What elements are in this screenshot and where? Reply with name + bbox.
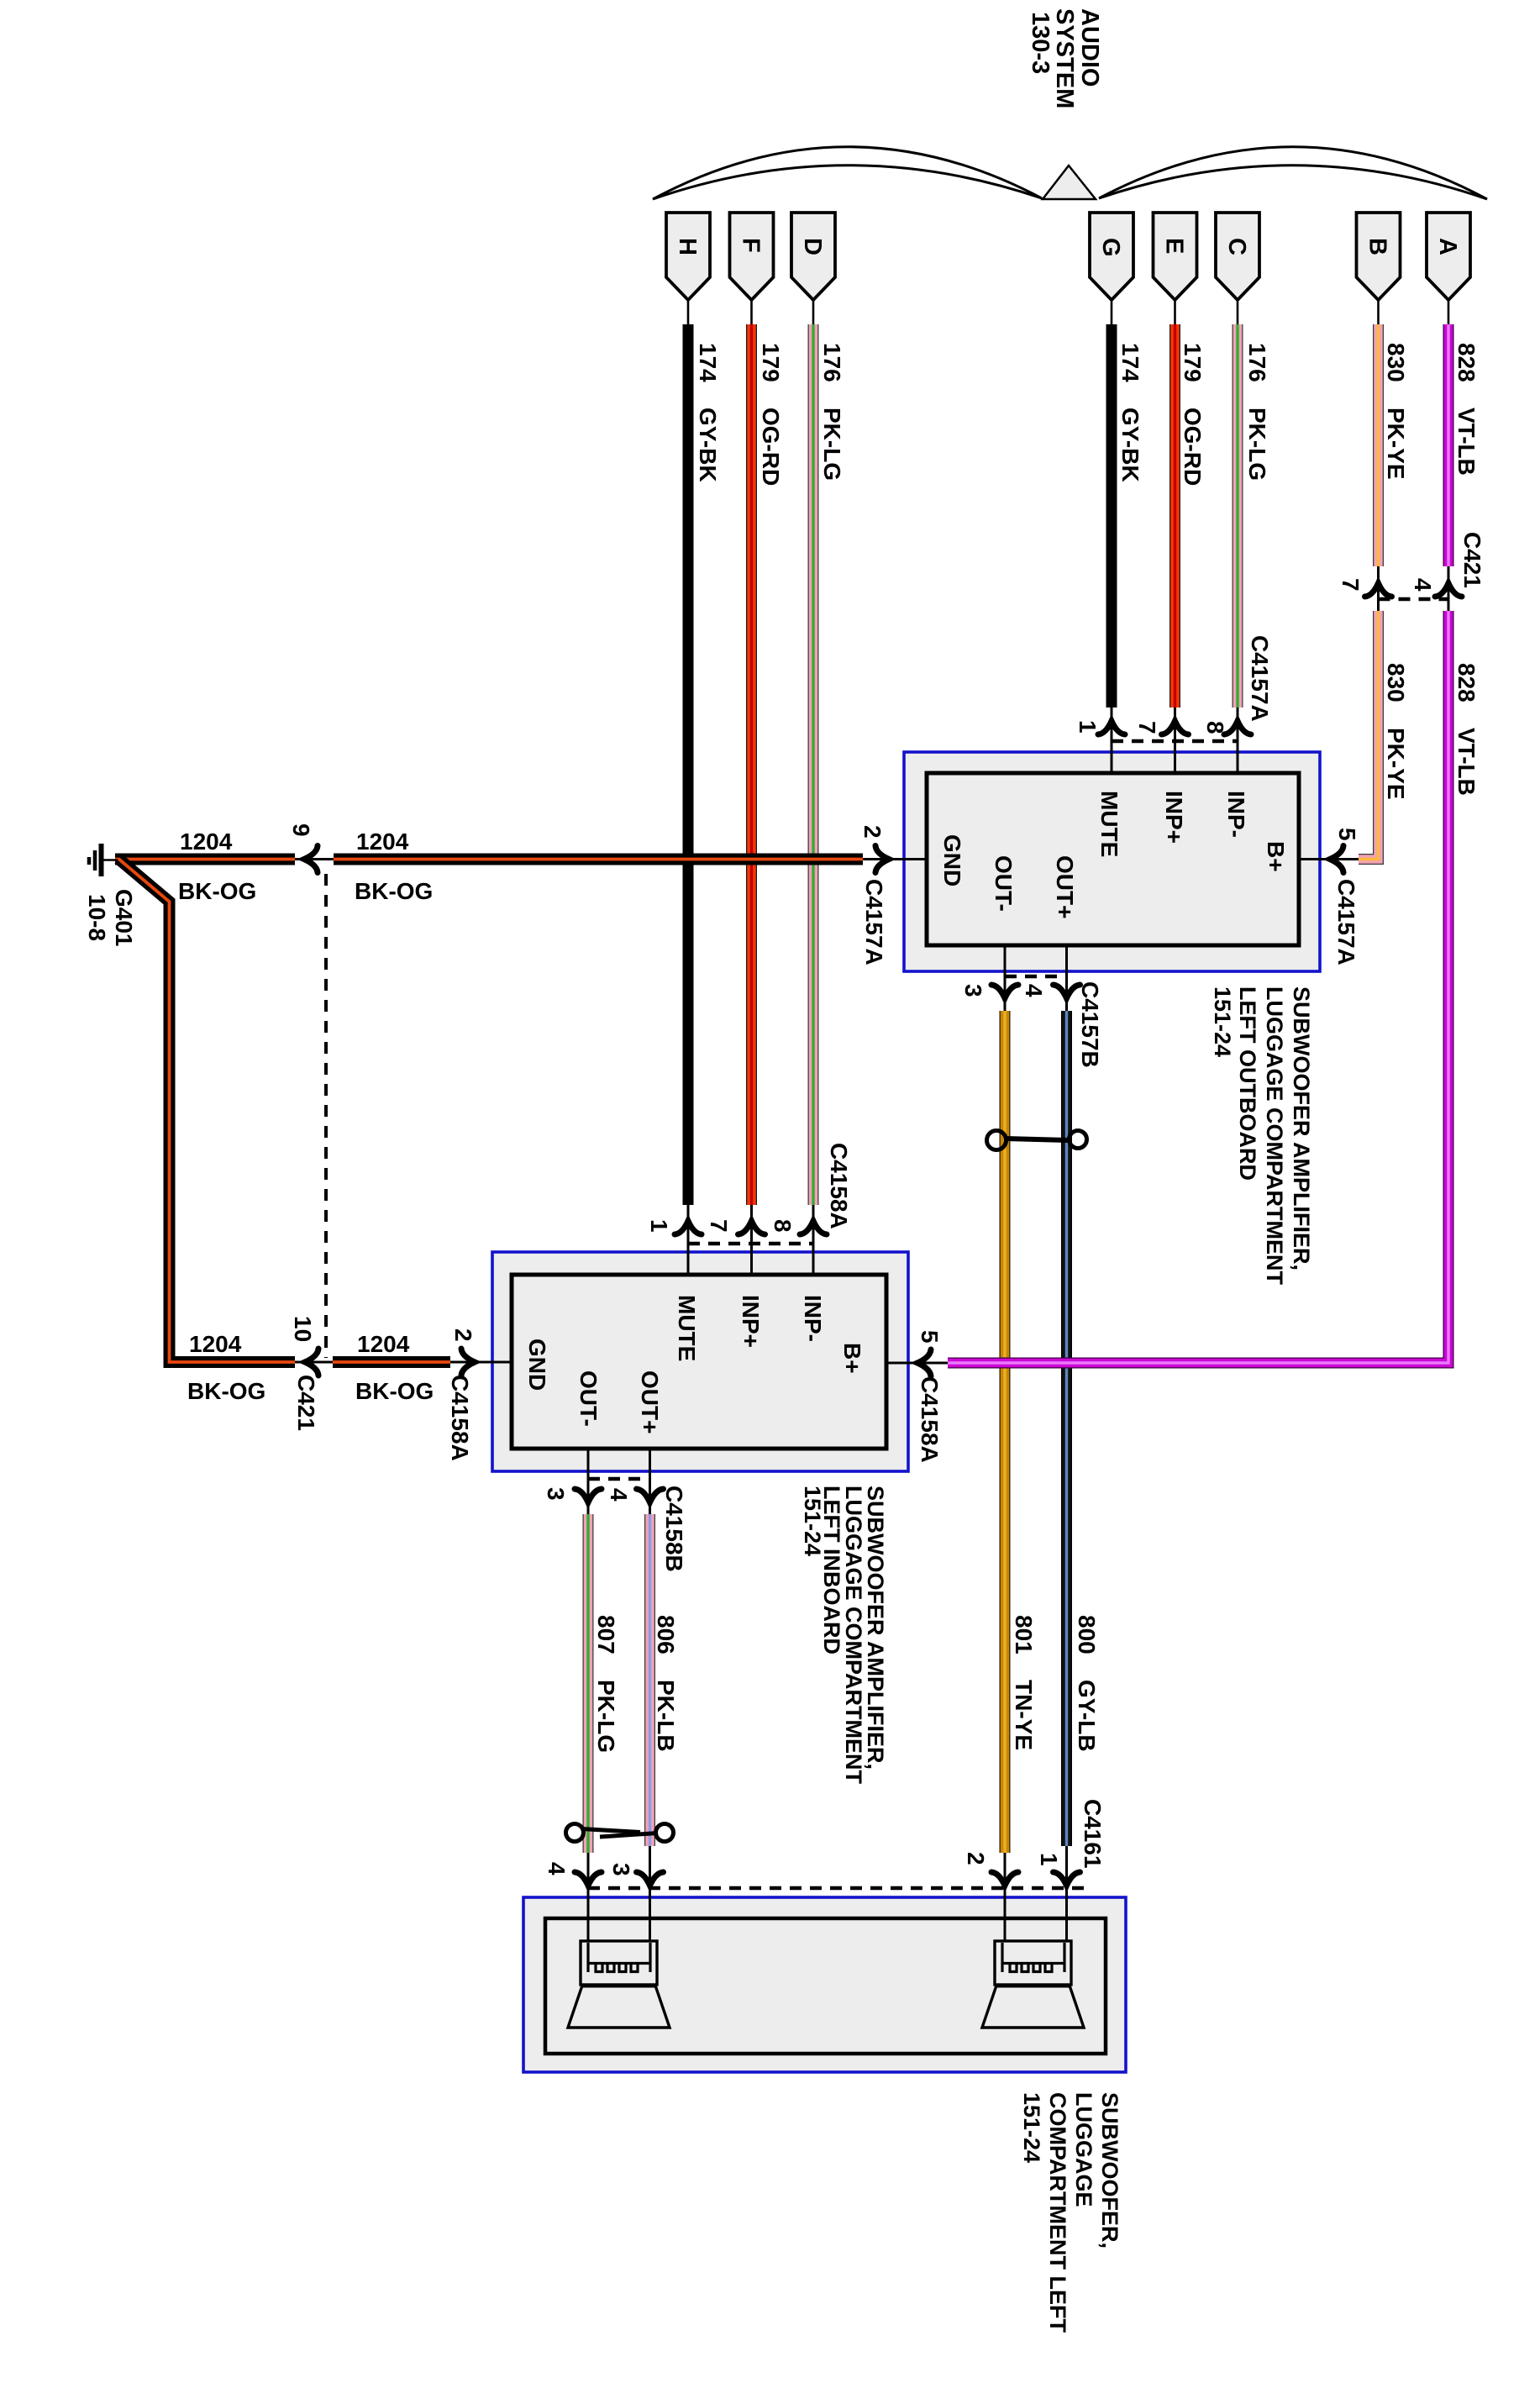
lower amp pin 1 arrow (675, 1221, 702, 1234)
speaker right cone (982, 1986, 1084, 2028)
svg-text:10-8: 10-8 (84, 894, 110, 941)
speaker right coil (1002, 1943, 1064, 1972)
harness brace triangle (1043, 166, 1096, 199)
svg-text:C4158A: C4158A (826, 1143, 852, 1229)
connector label H (666, 213, 710, 300)
svg-text:B+: B+ (839, 1343, 865, 1374)
svg-text:5: 5 (1334, 828, 1360, 841)
svg-text:INP+: INP+ (738, 1295, 764, 1348)
svg-text:151-24: 151-24 (1210, 986, 1235, 1057)
lower amp GND pin 2 lead (450, 1361, 512, 1364)
svg-text:4: 4 (1410, 578, 1436, 592)
connector label F (730, 213, 774, 300)
lower amp pin 1 lead (687, 1205, 690, 1275)
speaker pin 4 arrow (575, 1872, 602, 1886)
svg-text:174GY-BK: 174GY-BK (695, 343, 721, 482)
subwoofer amplifier left outboard inner box (927, 773, 1299, 945)
wire 806 PK-LB (644, 1514, 655, 1846)
lower amp GND pin 2 arrow (461, 1349, 475, 1376)
upper amp pin 8 arrow (1224, 721, 1251, 734)
svg-text:C4158B: C4158B (661, 1486, 687, 1572)
wire A break at C421 (1448, 566, 1450, 611)
svg-text:G: G (1097, 238, 1124, 257)
wire 830 PK-YE from C421 to amp B+ (1359, 611, 1379, 860)
svg-text:2: 2 (450, 1328, 476, 1342)
speaker left cone (568, 1986, 670, 2028)
svg-text:C: C (1223, 238, 1250, 255)
wire 174 GY-BK from H (683, 324, 694, 1205)
svg-text:179OG-RD: 179OG-RD (1180, 343, 1206, 486)
speaker right magnet (995, 1941, 1071, 1985)
svg-text:BK-OG: BK-OG (187, 1378, 265, 1404)
svg-text:151-24: 151-24 (1019, 2092, 1044, 2163)
wire 807 PK-LG (583, 1514, 594, 1853)
lower amp pin 7 arrow (738, 1221, 765, 1234)
lower amp pin 3 arrow (575, 1489, 602, 1502)
upper amp pin 1 lead (1111, 708, 1113, 773)
svg-text:LUGGAGE COMPARTMENT: LUGGAGE COMPARTMENT (1262, 986, 1287, 1285)
lower amp pin 8 arrow (800, 1221, 827, 1234)
wire 179 OG-RD from F (746, 324, 757, 1205)
svg-text:4: 4 (544, 1862, 570, 1875)
C421 pin 10 arrow (305, 1349, 318, 1376)
svg-text:INP-: INP- (1223, 791, 1249, 838)
svg-text:174GY-BK: 174GY-BK (1117, 343, 1143, 482)
speaker pin 3 arrow (637, 1872, 664, 1886)
svg-text:807PK-LG: 807PK-LG (593, 1615, 619, 1753)
svg-text:828VT-LB: 828VT-LB (1453, 343, 1480, 476)
svg-text:BK-OG: BK-OG (178, 878, 256, 904)
upper amp pin 8 lead (1237, 708, 1239, 773)
upper amp B+ pin 5 arrow (1330, 846, 1343, 873)
speaker wire lead 2 (1004, 1853, 1007, 1959)
dashed connector line C4158B outputs (588, 1477, 650, 1481)
svg-text:E: E (1161, 238, 1188, 254)
svg-text:176PK-LG: 176PK-LG (1244, 343, 1270, 481)
svg-text:C421: C421 (293, 1375, 319, 1431)
wire 801 TN-YE (1000, 1011, 1011, 1853)
connector E lead wire (1174, 300, 1176, 324)
svg-text:5: 5 (917, 1330, 943, 1344)
lower amp OUT+ pin 4 lead (649, 1449, 651, 1514)
dashed connector line C421 vertical (324, 874, 328, 1358)
lower amp B+ pin 5 lead (886, 1362, 948, 1365)
svg-text:4: 4 (606, 1488, 632, 1502)
upper amp B+ pin 5 lead (1299, 858, 1359, 860)
subwoofer speaker outer box (523, 1897, 1126, 2072)
dashed connector line C4161 (588, 1886, 1085, 1891)
speaker wire lead 3 (649, 1846, 651, 1959)
svg-text:COMPARTMENT LEFT: COMPARTMENT LEFT (1045, 2092, 1070, 2333)
svg-text:1: 1 (1036, 1853, 1062, 1866)
wire 1204 BK-OG branch diagonal and down to lower amp (118, 859, 295, 1362)
connector label A (1427, 213, 1470, 300)
svg-text:OUT+: OUT+ (637, 1370, 663, 1433)
speaker wire lead 4 (587, 1853, 590, 1959)
svg-text:B: B (1364, 238, 1391, 255)
connector label D (791, 213, 835, 300)
subwoofer amplifier left inboard outer box (492, 1252, 908, 1471)
upper amp GND pin 2 lead (863, 858, 927, 860)
speaker left magnet (581, 1941, 657, 1985)
wire 174 GY-BK from G (1106, 324, 1117, 708)
svg-text:830PK-YE: 830PK-YE (1383, 343, 1409, 480)
svg-text:C421: C421 (1459, 532, 1485, 588)
upper amp pin 7 lead (1174, 708, 1176, 773)
svg-text:D: D (799, 238, 826, 255)
svg-text:OUT-: OUT- (576, 1370, 602, 1427)
lower amp pin 7 lead (750, 1205, 753, 1275)
dashed connector line C4157B outputs (1005, 975, 1067, 979)
svg-text:C4161: C4161 (1080, 1799, 1106, 1869)
connector label B (1357, 213, 1401, 300)
svg-text:8: 8 (770, 1219, 796, 1233)
lower amp OUT- pin 3 lead (587, 1449, 590, 1514)
wire 828 VT-LB from A upper segment (1443, 324, 1454, 566)
svg-text:INP-: INP- (800, 1295, 826, 1342)
connector B lead wire (1377, 300, 1380, 324)
connector F lead wire (750, 300, 753, 324)
ground wire break lower (295, 1361, 333, 1364)
svg-text:4: 4 (1021, 984, 1047, 997)
wire 179 OG-RD from E (1169, 324, 1180, 708)
twisted pair symbol on 801/800 (987, 1131, 1087, 1150)
upper amp pin 3 arrow (991, 985, 1018, 998)
svg-text:OUT-: OUT- (991, 855, 1017, 912)
dashed connector line C4157A inputs (1112, 739, 1238, 744)
svg-text:C4157A: C4157A (1333, 879, 1359, 965)
speaker pin 1 arrow (1054, 1872, 1080, 1886)
speaker left coil (588, 1943, 650, 1972)
svg-text:10: 10 (290, 1316, 316, 1342)
C421 pin 4 arrow (1435, 583, 1462, 597)
svg-text:830PK-YE: 830PK-YE (1383, 663, 1409, 800)
svg-text:1: 1 (1075, 720, 1101, 734)
svg-text:8: 8 (1202, 721, 1228, 734)
svg-text:MUTE: MUTE (1096, 791, 1122, 857)
lower amp B+ pin 5 arrow (917, 1349, 931, 1376)
svg-text:INP+: INP+ (1161, 791, 1187, 844)
dashed connector line C4158A inputs (688, 1242, 813, 1246)
ground wire break upper (295, 858, 334, 860)
speaker wire lead 1 (1065, 1846, 1068, 1959)
svg-text:OUT+: OUT+ (1052, 855, 1078, 918)
svg-text:GND: GND (939, 834, 965, 886)
svg-text:1: 1 (646, 1219, 672, 1233)
wire 830 PK-YE from B upper segment (1373, 324, 1384, 566)
svg-text:7: 7 (1338, 578, 1364, 592)
wire 800 GY-LB (1061, 1011, 1072, 1846)
svg-text:C4157A: C4157A (861, 879, 887, 965)
svg-text:179OG-RD: 179OG-RD (758, 343, 784, 486)
svg-text:3: 3 (608, 1863, 634, 1876)
svg-text:F: F (738, 238, 765, 253)
svg-text:1204: 1204 (189, 1331, 242, 1357)
svg-text:SUBWOOFER,: SUBWOOFER, (1097, 2092, 1122, 2249)
wire 1204 BK-OG upper right segment (334, 854, 863, 865)
lower amp pin 4 arrow (637, 1489, 664, 1502)
svg-text:B+: B+ (1263, 841, 1289, 872)
svg-text:828VT-LB: 828VT-LB (1453, 663, 1480, 796)
subwoofer amplifier left outboard outer box (904, 752, 1320, 971)
lower amp pin 8 lead (812, 1205, 815, 1275)
svg-text:7: 7 (1134, 721, 1160, 734)
ground G401 symbol (89, 844, 118, 876)
connector label E (1154, 213, 1197, 300)
connector A lead wire (1448, 300, 1450, 324)
svg-text:800GY-LB: 800GY-LB (1074, 1615, 1100, 1752)
harness brace left arc (653, 147, 1042, 199)
connector C lead wire (1237, 300, 1239, 324)
svg-text:BK-OG: BK-OG (355, 1378, 434, 1404)
svg-text:AUDIO: AUDIO (1076, 8, 1103, 87)
svg-text:2: 2 (859, 825, 886, 839)
harness brace right arc (1099, 147, 1487, 199)
subwoofer amplifier left inboard inner box (512, 1275, 886, 1449)
connector G lead wire (1111, 300, 1113, 324)
svg-text:C4158A: C4158A (447, 1375, 473, 1461)
connector label C (1216, 213, 1259, 300)
svg-text:1204: 1204 (357, 1331, 410, 1357)
svg-text:C4158A: C4158A (917, 1376, 943, 1463)
wire 828 VT-LB from C421 down and to lower amp B+ (948, 611, 1448, 1363)
svg-text:GND: GND (524, 1339, 550, 1391)
svg-text:806PK-LB: 806PK-LB (653, 1615, 679, 1752)
upper amp pin 7 arrow (1162, 721, 1189, 734)
svg-text:A: A (1434, 238, 1461, 255)
svg-text:1204: 1204 (356, 829, 409, 855)
svg-text:2: 2 (963, 1852, 989, 1865)
upper amp pin 1 arrow (1098, 721, 1125, 734)
svg-text:3: 3 (960, 984, 986, 997)
speaker pin 2 arrow (991, 1872, 1018, 1886)
svg-text:MUTE: MUTE (674, 1295, 700, 1361)
C421 pin 9 arrow (304, 846, 318, 873)
upper amp pin 4 arrow (1054, 985, 1080, 998)
svg-text:C4157A: C4157A (1247, 635, 1273, 722)
connector label G (1090, 213, 1133, 300)
wire 176 PK-LG from C (1233, 324, 1243, 708)
connector H lead wire (687, 300, 690, 324)
svg-text:LEFT OUTBOARD: LEFT OUTBOARD (1235, 986, 1260, 1181)
C421 pin 7 arrow (1365, 583, 1392, 597)
svg-text:BK-OG: BK-OG (355, 878, 433, 904)
svg-text:C4157B: C4157B (1077, 981, 1103, 1068)
svg-text:176PK-LG: 176PK-LG (819, 343, 845, 481)
wire B break at C421 (1377, 566, 1380, 611)
svg-text:G401: G401 (111, 889, 137, 947)
upper amp GND pin 2 arrow (875, 846, 889, 873)
svg-text:151-24: 151-24 (800, 1486, 825, 1556)
svg-text:130-3: 130-3 (1027, 12, 1054, 74)
subwoofer speaker inner box (545, 1918, 1106, 2054)
upper amp OUT- pin 3 lead (1004, 945, 1007, 1011)
svg-text:SYSTEM: SYSTEM (1051, 8, 1078, 108)
connector D lead wire (812, 300, 815, 324)
svg-text:9: 9 (288, 823, 314, 837)
svg-text:SUBWOOFER AMPLIFIER,: SUBWOOFER AMPLIFIER, (1289, 986, 1314, 1270)
svg-text:LUGGAGE: LUGGAGE (1071, 2092, 1096, 2207)
twisted pair symbol on 807/806 (566, 1824, 674, 1842)
svg-text:801TN-YE: 801TN-YE (1011, 1615, 1037, 1750)
svg-text:H: H (674, 238, 701, 255)
wire 176 PK-LG from D (808, 324, 819, 1205)
svg-text:3: 3 (543, 1487, 569, 1501)
upper amp OUT+ pin 4 lead (1065, 945, 1068, 1011)
dashed connector line C421 top (1379, 597, 1449, 602)
svg-text:7: 7 (706, 1219, 732, 1233)
svg-text:1204: 1204 (180, 829, 233, 855)
wire 1204 BK-OG lower right segment (333, 1356, 450, 1368)
wire 1204 BK-OG ground to C421 upper segment (115, 854, 295, 865)
